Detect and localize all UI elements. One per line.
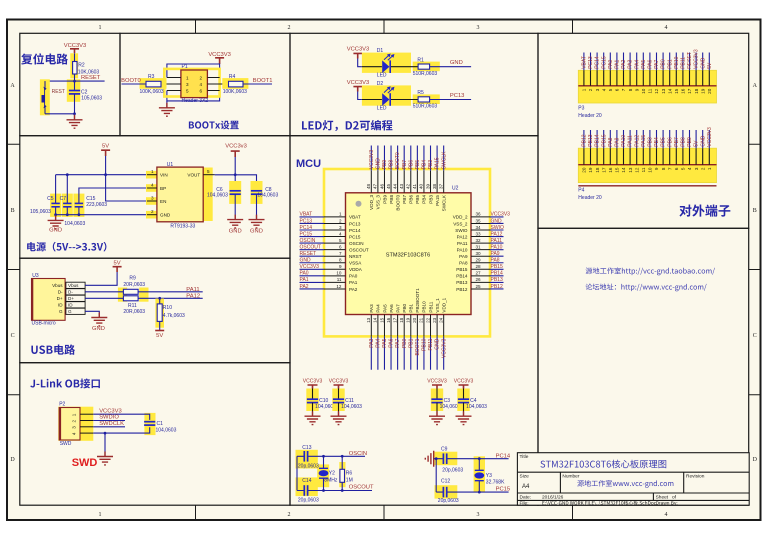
- ground (C6): [227, 215, 243, 228]
- svg-text:BOOT0: BOOT0: [395, 152, 401, 169]
- links frame: [538, 228, 749, 505]
- svg-text:B: B: [753, 208, 757, 214]
- wire SWDIO: [93, 420, 125, 422]
- svg-text:MCU: MCU: [296, 158, 321, 170]
- crystal Y3 branch wires: [478, 459, 480, 492]
- svg-text:BOOT1: BOOT1: [253, 78, 273, 84]
- svg-text:45: 45: [386, 183, 391, 189]
- svg-text:8: 8: [339, 258, 342, 263]
- wire PC15 row: [436, 491, 508, 493]
- svg-text:PA5: PA5: [382, 304, 387, 313]
- capacitor C12: [443, 487, 446, 498]
- section title J-Link OB接口: [30, 378, 100, 388]
- wire to ground (jlink): [104, 433, 106, 456]
- highlight box C1: [144, 413, 155, 435]
- resistor R1: [418, 64, 430, 69]
- svg-text:10: 10: [641, 88, 646, 94]
- svg-text:LED: LED: [377, 105, 387, 111]
- svg-text:STM32F103C8T6: STM32F103C8T6: [386, 253, 430, 259]
- wire to ground: [74, 114, 76, 120]
- power port VCC3V3 (C3): [427, 379, 447, 389]
- svg-text:5V: 5V: [102, 143, 109, 149]
- svg-text:11: 11: [641, 167, 646, 172]
- svg-text:OSCOUT: OSCOUT: [349, 248, 369, 253]
- svg-text:13: 13: [366, 317, 371, 323]
- svg-text:PA2: PA2: [349, 287, 358, 292]
- wire C8 to ground: [256, 194, 258, 219]
- power frame: [20, 136, 290, 259]
- P4 pin wires: [584, 130, 709, 148]
- svg-text:Vbus: Vbus: [52, 283, 63, 288]
- svg-text:PB12: PB12: [582, 134, 588, 146]
- svg-text:223,0603: 223,0603: [86, 202, 107, 208]
- wire C11 to ground: [338, 403, 340, 417]
- capacitor C10: [307, 399, 318, 402]
- svg-text:RT9193-33: RT9193-33: [170, 224, 195, 230]
- svg-text:G: G: [68, 309, 72, 314]
- wire button to gnd rail: [45, 113, 75, 115]
- capacitor C3: [431, 399, 442, 402]
- svg-text:38: 38: [432, 183, 437, 189]
- svg-text:9: 9: [339, 264, 342, 269]
- jlink frame: [20, 363, 290, 506]
- svg-text:2: 2: [288, 512, 291, 518]
- svg-text:REST: REST: [52, 89, 65, 95]
- svg-text:RESET: RESET: [687, 52, 693, 69]
- resistor R3: [146, 81, 161, 87]
- svg-text:C7: C7: [60, 196, 67, 202]
- svg-text:32: 32: [476, 238, 482, 243]
- svg-text:SWIO: SWIO: [491, 225, 504, 231]
- P3 pin wires: [584, 53, 709, 71]
- svg-text:105,0603: 105,0603: [81, 96, 102, 102]
- svg-text:2: 2: [151, 209, 154, 214]
- svg-text:5V: 5V: [694, 140, 700, 147]
- svg-text:C1: C1: [157, 421, 164, 427]
- ground (C3): [429, 411, 445, 424]
- ground (C8): [249, 215, 265, 228]
- svg-text:11: 11: [648, 88, 653, 93]
- svg-text:RESET: RESET: [300, 251, 317, 257]
- svg-text:1M: 1M: [346, 477, 353, 483]
- svg-text:17: 17: [601, 167, 606, 173]
- highlight box R6: [339, 462, 345, 487]
- svg-text:5: 5: [339, 238, 342, 243]
- svg-text:2: 2: [72, 420, 77, 423]
- svg-text:GND: GND: [700, 135, 706, 147]
- svg-text:PC15: PC15: [349, 234, 361, 239]
- highlight box C5: [50, 194, 61, 217]
- svg-text:7: 7: [621, 88, 626, 91]
- svg-text:GND: GND: [491, 218, 503, 224]
- svg-text:VCC3V3: VCC3V3: [707, 127, 713, 147]
- wire GND row: [56, 175, 147, 215]
- svg-text:6: 6: [615, 88, 620, 91]
- highlight box C4: [457, 389, 469, 412]
- svg-text:SWCLK: SWCLK: [442, 194, 447, 211]
- svg-text:B: B: [11, 208, 15, 214]
- highlight box C9: [435, 452, 458, 466]
- svg-text:C15: C15: [86, 196, 95, 202]
- svg-text:PC14: PC14: [300, 225, 313, 231]
- wire PC14 row: [434, 458, 509, 460]
- power port VCC3V3 (bootx): [208, 52, 231, 64]
- svg-text:PB7: PB7: [674, 137, 680, 147]
- svg-text:VDD_3: VDD_3: [369, 195, 374, 210]
- svg-text:VCC3V3: VCC3V3: [694, 49, 700, 69]
- highlight outline around U2: [324, 169, 490, 336]
- svg-text:GND: GND: [250, 229, 263, 235]
- header P3 body: [578, 70, 716, 103]
- svg-text:104,0603: 104,0603: [207, 193, 228, 199]
- svg-text:20p,0603: 20p,0603: [298, 498, 319, 504]
- svg-text:PA10: PA10: [457, 248, 468, 253]
- svg-text:Header 20: Header 20: [578, 195, 602, 201]
- svg-text:2: 2: [339, 218, 342, 223]
- svg-text:4: 4: [665, 25, 668, 31]
- title block labels: [520, 454, 705, 507]
- svg-text:7: 7: [667, 167, 672, 170]
- power port 5V (usb vbus): [113, 261, 122, 272]
- file value: [542, 501, 656, 506]
- highlight box R3: [140, 78, 167, 89]
- highlight box C8: [251, 181, 263, 204]
- svg-text:PB4: PB4: [422, 160, 428, 170]
- svg-text:P2: P2: [59, 402, 65, 408]
- resistor R2: [73, 62, 77, 75]
- svg-text:PB11: PB11: [428, 338, 434, 350]
- P3 pin numbers: [582, 88, 712, 94]
- LED D1: [362, 54, 418, 74]
- svg-text:PA0: PA0: [349, 274, 358, 279]
- wire to ground (power input): [55, 215, 57, 221]
- svg-text:PB4: PB4: [654, 137, 660, 147]
- U2 top pin wires: [371, 146, 443, 171]
- svg-text:PA6: PA6: [648, 60, 654, 69]
- svg-text:PB13: PB13: [588, 134, 594, 146]
- svg-text:31: 31: [476, 245, 482, 250]
- P1 pin stubs: [161, 78, 227, 91]
- svg-text:Drawn By:: Drawn By:: [656, 501, 678, 507]
- capacitor C2: [69, 91, 80, 94]
- U2 top pin numbers: [366, 183, 443, 189]
- svg-text:27: 27: [476, 271, 482, 276]
- svg-text:Title: Title: [520, 454, 529, 460]
- svg-text:C5: C5: [47, 196, 54, 202]
- mcu U2 body STM32F103C8T6: [346, 193, 472, 315]
- svg-text:4.7k,0603: 4.7k,0603: [163, 313, 185, 319]
- forum link text: [586, 284, 707, 292]
- section title 对外端子: [679, 204, 730, 216]
- svg-text:SWDCLK: SWDCLK: [99, 421, 124, 427]
- svg-text:15: 15: [615, 167, 620, 173]
- svg-text:PA15: PA15: [435, 195, 440, 206]
- svg-text:14: 14: [373, 317, 378, 323]
- resistor R9: [123, 289, 138, 294]
- P4 pin numbers: [582, 167, 712, 173]
- svg-text:10: 10: [648, 167, 653, 173]
- svg-text:PA15: PA15: [641, 135, 647, 147]
- svg-text:1: 1: [99, 512, 102, 518]
- svg-text:SWD: SWD: [72, 457, 98, 469]
- svg-text:23: 23: [432, 317, 437, 323]
- svg-text:PC14: PC14: [496, 453, 511, 459]
- wire R11 to PA12: [138, 297, 203, 299]
- svg-text:22: 22: [425, 317, 430, 323]
- svg-text:SWIO: SWIO: [455, 228, 468, 233]
- svg-text:43: 43: [399, 183, 404, 189]
- svg-text:5: 5: [608, 88, 613, 91]
- svg-text:100K,0603: 100K,0603: [140, 89, 164, 95]
- svg-text:510R,0603: 510R,0603: [413, 71, 438, 77]
- svg-text:C4: C4: [470, 398, 477, 404]
- capacitor C6: [230, 191, 241, 194]
- U2 left pin numbers: [336, 212, 342, 289]
- svg-text:OSCIN: OSCIN: [349, 451, 367, 457]
- svg-text:Size: Size: [520, 474, 530, 480]
- svg-text:34: 34: [476, 225, 482, 230]
- wire pin1 to C1 top: [93, 414, 149, 420]
- svg-text:Sheet: Sheet: [656, 494, 669, 500]
- wire VCC3V3 to D2: [358, 92, 362, 100]
- svg-text:26: 26: [476, 277, 482, 282]
- usb frame: [20, 258, 290, 363]
- svg-text:2016/1/26: 2016/1/26: [542, 494, 564, 500]
- highlight box C2: [67, 79, 81, 102]
- power port 5V (pullup, inverted): [155, 331, 164, 340]
- svg-text:1: 1: [151, 169, 154, 174]
- svg-text:File:: File:: [520, 501, 529, 507]
- svg-text:PB6: PB6: [667, 137, 673, 147]
- svg-text:VCC3V3: VCC3V3: [329, 379, 349, 385]
- svg-text:BOOT0: BOOT0: [121, 78, 141, 84]
- junction nodes power: [104, 173, 107, 176]
- svg-text:3: 3: [186, 82, 189, 87]
- svg-text:7: 7: [339, 251, 342, 256]
- svg-text:1: 1: [582, 88, 587, 91]
- svg-text:5V: 5V: [156, 333, 163, 339]
- svg-text:17: 17: [687, 88, 692, 94]
- svg-text:VCC3V3: VCC3V3: [454, 379, 474, 385]
- svg-text:PA7: PA7: [654, 60, 660, 69]
- svg-text:G: G: [59, 309, 63, 314]
- regulator U1 body: [157, 167, 203, 222]
- svg-text:VCC3V3: VCC3V3: [491, 212, 511, 218]
- highlight boxes R9 R11 pins: [118, 288, 127, 302]
- svg-text:PA7: PA7: [395, 304, 400, 313]
- svg-text:VSS_3: VSS_3: [376, 195, 381, 210]
- svg-text:PB10: PB10: [422, 338, 428, 350]
- zone tick marks right band: [749, 144, 761, 394]
- svg-text:40: 40: [419, 183, 424, 189]
- svg-text:R6: R6: [346, 471, 353, 477]
- svg-text:Number: Number: [562, 474, 579, 480]
- highlight strips U1 pins: [146, 171, 158, 179]
- svg-text:VIN: VIN: [160, 173, 168, 178]
- svg-text:PA4: PA4: [376, 338, 382, 347]
- crystal Y2: [319, 468, 329, 478]
- wire R4 to BOOT1: [243, 83, 272, 85]
- svg-text:VOUT: VOUT: [187, 173, 200, 178]
- svg-text:14: 14: [621, 167, 626, 173]
- svg-text:9: 9: [654, 167, 659, 170]
- svg-text:20R,0603: 20R,0603: [123, 309, 145, 315]
- svg-text:C9: C9: [441, 446, 448, 452]
- svg-text:PB15: PB15: [601, 134, 607, 146]
- capacitor C4: [458, 399, 469, 402]
- svg-text:PC14: PC14: [349, 228, 361, 233]
- header P4 body: [578, 148, 716, 182]
- wire pin4 to C1 bottom: [93, 427, 149, 433]
- svg-text:20: 20: [412, 317, 417, 323]
- svg-text:EN: EN: [160, 199, 166, 204]
- wire VCC3V3 to C4: [463, 389, 465, 399]
- zone tick marks top band: [196, 20, 573, 34]
- svg-text:VCC3V3: VCC3V3: [369, 150, 375, 170]
- svg-text:3: 3: [339, 225, 342, 230]
- svg-text:20p,0603: 20p,0603: [442, 468, 463, 474]
- highlight box P2: [58, 407, 93, 441]
- capacitor C1: [144, 422, 155, 425]
- svg-text:PB5: PB5: [415, 195, 420, 204]
- svg-text:19: 19: [588, 167, 593, 173]
- svg-text:BOOT1: BOOT1: [415, 338, 421, 355]
- svg-text:21: 21: [419, 317, 424, 323]
- svg-text:PA10: PA10: [621, 135, 627, 147]
- highlight box R5: [413, 94, 440, 104]
- svg-text:13: 13: [661, 88, 666, 94]
- svg-text:46: 46: [379, 183, 384, 189]
- svg-text:U3: U3: [32, 273, 39, 279]
- svg-text:12: 12: [634, 167, 639, 173]
- zone tick marks left band: [7, 144, 20, 394]
- highlight box switch REST: [40, 79, 50, 115]
- highlight box D1: [362, 53, 411, 73]
- svg-text:36: 36: [476, 212, 482, 217]
- svg-text:3: 3: [477, 512, 480, 518]
- svg-text:PA3: PA3: [369, 338, 375, 347]
- svg-text:PB4: PB4: [422, 195, 427, 204]
- svg-text:PB11: PB11: [681, 57, 687, 69]
- svg-text:PA6: PA6: [389, 338, 395, 347]
- svg-text:35: 35: [476, 218, 482, 223]
- section title USB电路: [31, 344, 75, 354]
- U2 bottom pin numbers: [366, 317, 443, 323]
- svg-text:104,0603: 104,0603: [466, 404, 487, 410]
- svg-text:PB8: PB8: [681, 137, 687, 147]
- svg-text:PB5: PB5: [415, 160, 421, 170]
- svg-text:Vbus: Vbus: [68, 283, 79, 288]
- junction node gnd (jlink): [104, 432, 107, 435]
- wire D+ to R10: [159, 298, 161, 304]
- wire EN feed: [106, 175, 147, 201]
- svg-text:GND: GND: [300, 258, 312, 264]
- svg-text:R9: R9: [129, 275, 136, 281]
- header P2 body: [59, 408, 80, 441]
- svg-text:19: 19: [406, 317, 411, 323]
- svg-text:8: 8: [661, 167, 666, 170]
- svg-text:C3: C3: [444, 398, 451, 404]
- header P1 body: [181, 70, 208, 98]
- svg-text:5: 5: [681, 167, 686, 170]
- svg-text:VSS_1: VSS_1: [435, 298, 440, 313]
- U1 pin stubs: [147, 175, 215, 215]
- highlight box R10: [155, 299, 164, 328]
- svg-text:44: 44: [392, 183, 397, 189]
- svg-text:12: 12: [336, 284, 342, 289]
- power port VCC3V3 (reset): [64, 43, 87, 53]
- svg-text:D+: D+: [57, 296, 63, 301]
- svg-text:PB9: PB9: [687, 137, 693, 147]
- resistor R11: [123, 296, 138, 301]
- junction node D+ pullup: [158, 297, 161, 300]
- svg-text:4: 4: [151, 182, 154, 187]
- svg-text:GND: GND: [49, 228, 62, 234]
- svg-text:6: 6: [674, 167, 679, 170]
- junction nodes y3: [435, 457, 438, 460]
- U1 pin names: [160, 173, 200, 218]
- svg-text:BOOT0: BOOT0: [395, 195, 400, 211]
- svg-text:D2: D2: [377, 81, 384, 87]
- svg-text:PC13: PC13: [450, 93, 465, 99]
- svg-text:C13: C13: [302, 445, 311, 451]
- svg-text:6: 6: [339, 245, 342, 250]
- wire Vbus to 5V: [85, 272, 117, 285]
- svg-text:13: 13: [628, 167, 633, 173]
- svg-text:A: A: [10, 83, 15, 89]
- svg-text:4: 4: [200, 82, 203, 87]
- U2 bottom pin names: [369, 288, 446, 313]
- highlight box C15: [73, 194, 84, 217]
- svg-text:510R,0603: 510R,0603: [413, 104, 438, 110]
- junction node RESET: [73, 80, 76, 83]
- P1 pin numbers: [186, 76, 203, 94]
- svg-text:PA12: PA12: [186, 293, 200, 299]
- svg-text:PB8: PB8: [389, 195, 394, 204]
- svg-text:R1: R1: [417, 57, 424, 63]
- svg-text:PA10: PA10: [491, 245, 503, 251]
- svg-text:PA12: PA12: [491, 231, 503, 237]
- svg-text:R2: R2: [78, 63, 85, 69]
- svg-text:PB1: PB1: [408, 338, 414, 348]
- svg-text:GND: GND: [450, 60, 463, 66]
- svg-text:PA8: PA8: [491, 258, 500, 264]
- U3 pin names inside: [52, 283, 63, 314]
- wire C10 to ground: [312, 403, 314, 417]
- wire VCC3V3 to C11: [338, 389, 340, 399]
- svg-text:30: 30: [476, 251, 482, 256]
- svg-text:1: 1: [339, 212, 342, 217]
- crystal Y3: [474, 470, 484, 480]
- svg-text:42: 42: [406, 183, 411, 189]
- power port VCC3V3 (C10): [303, 379, 323, 389]
- power port VCC3v3 (regulator output): [225, 143, 247, 157]
- svg-text:A4: A4: [522, 484, 530, 490]
- svg-text:OSCIN: OSCIN: [349, 241, 364, 246]
- wire to ground (bootx): [166, 101, 168, 108]
- svg-text:3: 3: [694, 167, 699, 170]
- svg-text:OSCIN: OSCIN: [300, 238, 316, 244]
- capacitor C11: [333, 399, 344, 402]
- svg-text:Y3: Y3: [486, 473, 492, 479]
- junction node VOUT: [234, 173, 237, 176]
- highlight box Y3: [474, 456, 485, 492]
- svg-text:PB13: PB13: [456, 280, 468, 285]
- svg-text:PB0: PB0: [661, 59, 667, 69]
- LED D2: [362, 86, 418, 106]
- svg-text:17: 17: [392, 317, 397, 323]
- U2 right pin wires: [490, 217, 504, 289]
